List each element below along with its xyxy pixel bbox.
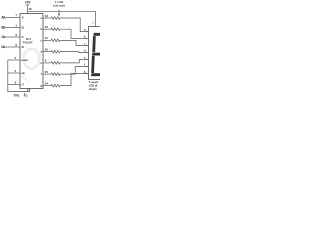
svg-text:7 x Ra: 7 x Ra — [55, 0, 64, 4]
svg-text:RBI: RBI — [21, 73, 25, 75]
svg-text:displa: displa — [89, 87, 97, 91]
svg-text:0V(: 0V( — [14, 93, 20, 97]
svg-text:15: 15 — [45, 70, 49, 74]
svg-text:74LS47: 74LS47 — [23, 41, 34, 45]
svg-text:BI/RBO: BI/RBO — [21, 60, 28, 62]
svg-text:d: d — [40, 50, 42, 54]
svg-text:b: b — [40, 27, 42, 31]
svg-text:LED di: LED di — [89, 83, 98, 87]
svg-text:10: 10 — [45, 47, 49, 51]
svg-text:g: g — [40, 84, 42, 88]
svg-text:14: 14 — [45, 81, 49, 85]
svg-text:+5V: +5V — [25, 0, 32, 4]
svg-text:b: b — [84, 35, 86, 39]
svg-text:g: g — [84, 70, 86, 74]
svg-text:(see text): (see text) — [53, 4, 65, 8]
svg-text:7-segm: 7-segm — [89, 80, 99, 84]
svg-text:16: 16 — [28, 7, 32, 11]
svg-text:d: d — [84, 49, 86, 53]
svg-text:13: 13 — [45, 14, 49, 18]
svg-text:): ) — [26, 93, 27, 97]
svg-text:f: f — [41, 72, 42, 76]
svg-text:11: 11 — [45, 36, 49, 40]
svg-text:12: 12 — [45, 25, 49, 29]
svg-text:f: f — [84, 63, 85, 67]
